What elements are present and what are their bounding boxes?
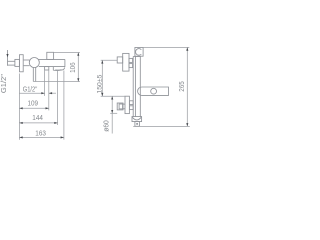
svg-text:163: 163 [35,128,46,137]
svg-text:ø60: ø60 [102,120,111,132]
svg-text:150±5: 150±5 [97,74,104,93]
svg-text:G1/2": G1/2" [23,84,38,93]
svg-text:109: 109 [28,98,39,107]
svg-text:265: 265 [177,81,186,92]
svg-text:106: 106 [68,62,77,73]
svg-text:G1/2": G1/2" [0,74,8,93]
svg-text:144: 144 [32,113,43,122]
